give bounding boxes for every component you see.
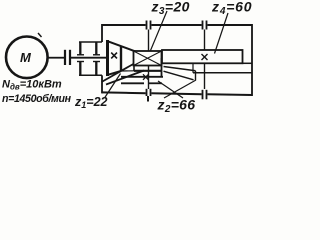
svg-text:z1=22: z1=22 (74, 95, 108, 110)
bearing of shaft II on top wall (147, 21, 151, 30)
input bearing housing bottom line (79, 74, 102, 76)
leader line z4 (215, 13, 229, 54)
input shaft bearing 1 (77, 42, 84, 75)
shaft III vertical upper (204, 30, 206, 51)
housing right wall (251, 24, 253, 96)
shaft III vertical lower (204, 63, 206, 89)
bearing of shaft III on bottom wall (203, 90, 207, 100)
svg-text:n=1450об/мин: n=1450об/мин (2, 93, 72, 105)
hub band left step (192, 63, 194, 73)
input bearing housing top line (79, 41, 102, 43)
scan tick above motor (38, 33, 42, 37)
leader line z2 left stroke (158, 81, 183, 98)
svg-text:M: M (20, 50, 32, 65)
motor M circle (6, 37, 48, 79)
housing bottom wall (102, 92, 252, 95)
bevel pinion z1 (107, 40, 136, 76)
housing top wall (102, 24, 252, 26)
coupling left half (64, 50, 66, 65)
cylindrical pinion z3 on shaft II (134, 51, 162, 66)
svg-text:z4=60: z4=60 (211, 0, 252, 17)
hub line lower right (243, 62, 253, 64)
bearing of shaft II on bottom wall (147, 89, 151, 102)
coupling right half (69, 50, 71, 65)
leader line z1 (105, 74, 121, 99)
input shaft segment motor to coupling (49, 57, 65, 59)
input shaft bearing 2 (93, 42, 100, 75)
housing left wall (101, 24, 103, 93)
bevel wheel z2 on shaft II (102, 58, 196, 85)
input shaft segment coupling to pinion (71, 57, 108, 59)
svg-text:z2=66: z2=66 (157, 97, 196, 115)
leader line z2 right stroke (164, 80, 196, 98)
leader line z3 (151, 11, 168, 51)
hub band bottom line (193, 72, 252, 74)
bearing of shaft III on top wall (203, 21, 207, 30)
svg-text:z3=20: z3=20 (151, 0, 190, 17)
shaft II vertical (148, 30, 150, 90)
cylindrical wheel z4 on shaft III (162, 50, 243, 63)
